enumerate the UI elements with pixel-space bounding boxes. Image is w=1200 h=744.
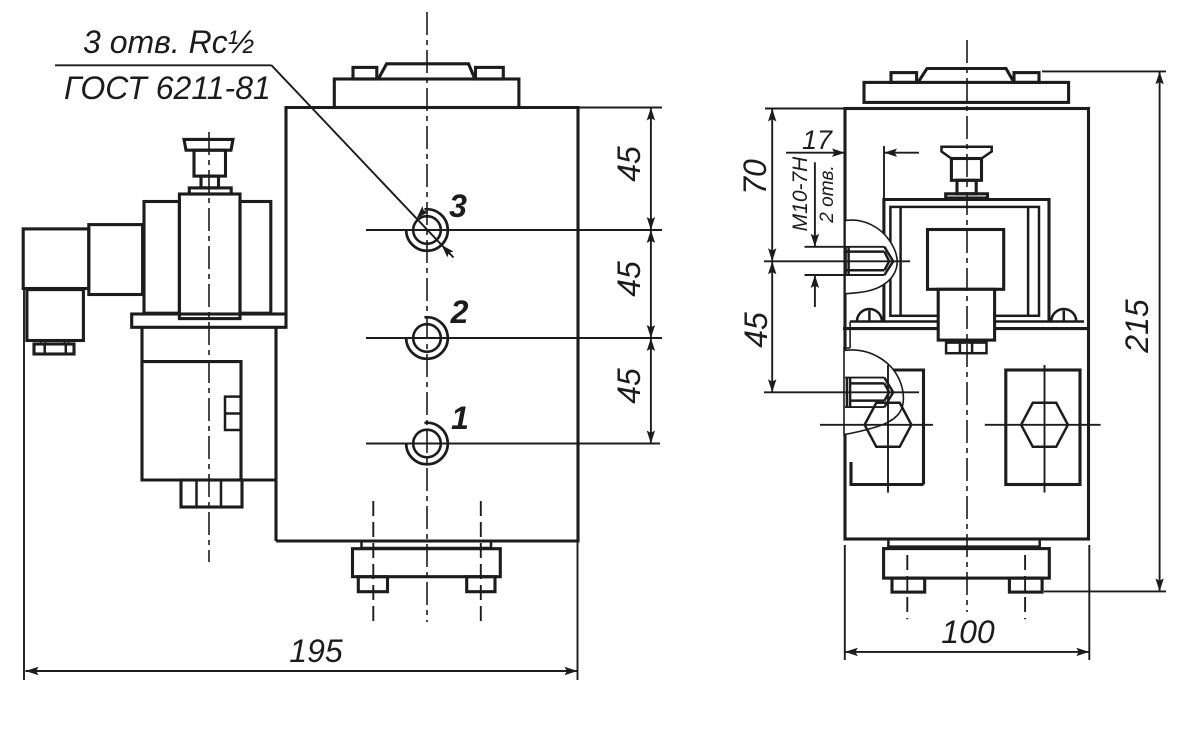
- M10 hole 2 outer thread bottom line: [845, 406, 884, 408]
- lower section bottom bolt block: [181, 480, 242, 507]
- dim 45 arrow top: [647, 108, 655, 121]
- right screw dome slot: [1063, 311, 1066, 322]
- bottom mounting step (front view): [362, 541, 492, 548]
- M10 hole 1 inner thread top line: [846, 250, 885, 253]
- M10 dimension arrowhead up: [811, 275, 819, 288]
- svg-text:2: 2: [450, 294, 469, 330]
- dim 100 left arrowhead: [845, 648, 858, 656]
- dim 215 arrow bottom: [1155, 578, 1163, 591]
- svg-text:45: 45: [611, 368, 647, 404]
- port hole 2 thread arc: [406, 317, 448, 359]
- left bolt axis (side view): [906, 555, 908, 619]
- port hole 3 axis line: [366, 229, 662, 231]
- right screw dome: [1051, 309, 1076, 322]
- adjustment knob stem: [194, 150, 226, 176]
- right hexagon horizontal axis: [985, 424, 1101, 426]
- M10 hole 2 drill cone outer: [884, 378, 893, 408]
- port hole 3 thread arc: [406, 209, 448, 251]
- M10 hole 2 axis line: [764, 391, 919, 393]
- broken-out section blob lower (M10 hole 2): [844, 350, 903, 435]
- M10 hole 2 inner thread bottom line: [850, 399, 884, 402]
- solenoid frame inner band right: [1027, 207, 1030, 316]
- top cover center boss (side view): [918, 69, 1014, 83]
- solenoid plunger block (side view): [928, 230, 1004, 290]
- solenoid axis centerline (front view): [208, 132, 210, 562]
- body top extension line (side view): [765, 108, 845, 110]
- svg-text:1: 1: [451, 400, 469, 436]
- cable gland stub left: [41, 341, 46, 345]
- dim 70 arrow bottom: [768, 248, 776, 261]
- dim 70-45 chain line (side view): [771, 109, 773, 393]
- M10 hole 2 drill cone inner: [884, 383, 889, 400]
- electrical connector body: [23, 229, 89, 289]
- dim 45 arrow at hole2 up: [647, 338, 655, 351]
- M10 hole 1 outer thread top line: [805, 246, 885, 248]
- leader far-side arrowhead: [442, 245, 454, 257]
- solenoid mounting flange strip: [132, 314, 286, 327]
- dim 45 arrow top (side view): [768, 261, 776, 274]
- broken-out section edge stub horizontal: [843, 347, 850, 349]
- dim 100 right extension line: [1088, 545, 1090, 660]
- top cover right tab: [476, 67, 504, 79]
- M10 hole 1 drill cone inner: [884, 252, 889, 271]
- solenoid frame outer (side view): [884, 200, 1049, 322]
- svg-text:195: 195: [289, 633, 343, 669]
- svg-text:45: 45: [611, 261, 647, 297]
- M10 dimension leader line upper: [814, 162, 816, 247]
- M10 hole 2 outer thread top line: [845, 377, 884, 379]
- electrical connector lower block: [27, 290, 84, 341]
- dim 195 right arrowhead: [565, 667, 578, 675]
- adjustment knob lower stem: [201, 176, 219, 188]
- svg-text:215: 215: [1119, 299, 1155, 354]
- dim 70 arrow top: [768, 109, 776, 122]
- left hexagon horizontal axis: [820, 424, 933, 426]
- svg-text:3 отв. Rc½: 3 отв. Rc½: [83, 24, 254, 60]
- dim 45 arrow bottom (side view): [768, 379, 776, 392]
- main valve body (front view): [276, 108, 578, 542]
- solenoid right coil section: [240, 202, 271, 314]
- dim 45 arrow at hole3 down: [647, 217, 655, 230]
- svg-text:ГОСТ 6211-81: ГОСТ 6211-81: [64, 70, 271, 106]
- solenoid plunger lower block (side view): [938, 289, 994, 340]
- right hexagon plug (side view): [1021, 403, 1068, 447]
- body flange band top line (side view): [850, 320, 1084, 323]
- port hole 3: [413, 216, 441, 244]
- bolt block divider left: [195, 480, 198, 507]
- solenoid frame inner band left: [899, 207, 902, 316]
- broken-out section blob upper (M10 hole 1): [845, 220, 897, 294]
- top cover flange (front view): [334, 79, 519, 108]
- port hole 2: [413, 324, 441, 352]
- svg-text:М10-7Н: М10-7Н: [789, 156, 812, 232]
- plunger nut divider left: [959, 343, 962, 354]
- M10 hole 2 face line b: [849, 378, 852, 408]
- dim 215 dimension line: [1159, 71, 1161, 591]
- leader line to hole 3: [272, 65, 454, 257]
- M10 hole 2 inner thread top line: [850, 382, 884, 385]
- left port boss (side view): [851, 370, 924, 485]
- right boss vertical axis: [1044, 365, 1046, 493]
- port hole 1 axis line: [366, 443, 660, 445]
- svg-text:45: 45: [611, 146, 647, 182]
- svg-text:3: 3: [449, 188, 467, 224]
- svg-text:70: 70: [737, 159, 773, 195]
- note underline shelf: [55, 64, 272, 66]
- adjustment screw lower stem (side view): [957, 180, 976, 194]
- solenoid left coil section: [144, 202, 179, 314]
- svg-text:45: 45: [738, 312, 774, 348]
- main valve body (side view): [845, 109, 1089, 540]
- bottom mounting flange (side view): [884, 549, 1050, 579]
- centerline of valve body (side view): [966, 40, 968, 612]
- right bolt axis (side view): [1024, 555, 1026, 619]
- left screw dome: [857, 309, 882, 322]
- dim 100 dimension line: [845, 651, 1090, 653]
- bolt block divider right: [220, 480, 223, 507]
- left mounting foot (front view): [358, 577, 387, 592]
- bottom mounting flange (front view): [353, 549, 501, 577]
- top cover left tab (side view): [891, 73, 917, 83]
- left bolt axis (front view): [372, 501, 374, 624]
- broken-out section edge stub vertical: [849, 322, 851, 349]
- left screw dome slot: [868, 311, 871, 322]
- dim 195 right extension line: [577, 541, 579, 680]
- dim 215 bottom extension line: [1044, 590, 1166, 592]
- adjustment knob base flange: [189, 188, 231, 194]
- M10 hole 1 face line a: [844, 247, 847, 275]
- dim 17 dimension line left part: [786, 152, 845, 154]
- dim 215 top extension line: [1042, 70, 1166, 72]
- top cover right tab (side view): [1014, 73, 1039, 83]
- dim 195 left extension line: [23, 288, 25, 680]
- dim 17 dimension line right part: [884, 152, 919, 154]
- centerline of valve body (front view): [426, 12, 428, 622]
- bottom mounting step (side view): [888, 539, 1039, 547]
- adjustment screw head (side view): [942, 147, 992, 159]
- port hole 1: [413, 430, 441, 458]
- right bolt axis (front view): [480, 501, 482, 624]
- left boss vertical axis: [887, 365, 889, 493]
- M10 hole 1 inner thread bottom line: [846, 269, 885, 272]
- adjustment knob cap (front view): [184, 139, 233, 150]
- solenoid valve lower section outline: [142, 327, 276, 541]
- M10 dimension leader line lower: [814, 275, 816, 307]
- M10 hole 1 axis line: [764, 260, 910, 262]
- svg-text:100: 100: [941, 614, 995, 650]
- port hole 1 thread arc: [406, 423, 448, 465]
- dim 100 left extension line: [844, 545, 846, 660]
- dim 17 arrowhead right-pointing: [832, 149, 845, 157]
- lower section side clip: [225, 397, 241, 430]
- dim 45 arrow at hole3 up: [647, 230, 655, 243]
- svg-text:2 отв.: 2 отв.: [817, 165, 838, 223]
- adjustment screw base flange (side view): [946, 194, 988, 198]
- dim 45 arrow at hole1 down: [647, 431, 655, 444]
- body flange band bottom line (side view): [843, 327, 1089, 330]
- solenoid frame inner (side view): [890, 207, 1039, 316]
- lower section side clip middle line: [225, 412, 241, 415]
- cable gland stub right: [65, 341, 69, 345]
- port hole 2 axis line: [366, 337, 662, 339]
- leader arrowhead at hole 3: [417, 206, 429, 218]
- adjustment screw stem (side view): [951, 159, 981, 181]
- top cover flange (side view): [864, 82, 1069, 102]
- dimension chain line 45-45-45: [650, 108, 652, 444]
- dim 215 arrow top: [1155, 71, 1163, 84]
- M10 dimension arrowhead down: [811, 234, 819, 247]
- plunger nut divider right: [971, 343, 974, 354]
- left mounting foot (side view): [892, 578, 925, 592]
- dim 45 arrow at hole2 down: [647, 325, 655, 338]
- svg-text:17: 17: [802, 125, 833, 155]
- M10 hole 1 outer thread bottom line: [805, 274, 885, 276]
- connector cable gland bar: [34, 344, 74, 354]
- top cover center boss: [378, 64, 475, 79]
- right mounting foot (side view): [1009, 578, 1042, 592]
- lower section inner step: [142, 362, 241, 480]
- electrical connector arm: [89, 225, 143, 295]
- M10 hole 1 face line b: [847, 247, 850, 275]
- cable gland divider left: [43, 344, 46, 354]
- M10 hole 1 drill cone outer: [884, 247, 893, 275]
- dim 17 extension line: [883, 146, 885, 210]
- dim 100 right arrowhead: [1076, 648, 1089, 656]
- left hexagon plug (side view): [865, 403, 912, 447]
- plunger nut (side view): [946, 343, 986, 354]
- solenoid core column: [179, 194, 240, 319]
- top cover left tab: [353, 67, 377, 79]
- M10 hole 2 face line a: [846, 378, 849, 408]
- dim 195 dimension line: [26, 670, 578, 672]
- cable gland divider right: [65, 344, 68, 354]
- dim 195 left arrowhead: [26, 667, 39, 675]
- dim 17 arrowhead left-pointing: [884, 149, 897, 157]
- body top edge extension line (front view): [578, 107, 662, 109]
- right mounting foot (front view): [467, 577, 495, 592]
- right port boss (side view): [1006, 370, 1080, 485]
